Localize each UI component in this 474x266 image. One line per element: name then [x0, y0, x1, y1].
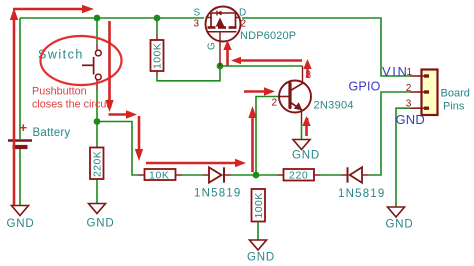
diode D1 1N5819	[209, 167, 224, 182]
svg-text:10K: 10K	[149, 170, 169, 182]
svg-text:GPIO: GPIO	[349, 80, 381, 94]
wire battery positive vertical	[19, 18, 21, 139]
wire VCC top horizontal battery to MOSFET source	[20, 17, 204, 19]
pin number 2 (drain)	[241, 19, 247, 30]
svg-text:GND: GND	[292, 150, 320, 162]
svg-text:2N3904: 2N3904	[314, 100, 354, 112]
pin number 2 (base)	[272, 98, 278, 109]
svg-text:1N5819: 1N5819	[194, 188, 241, 200]
wire base node to 220 resistor	[256, 174, 284, 176]
label Switch	[38, 48, 84, 62]
annotation arrow emitter up	[302, 116, 310, 136]
svg-text:GND: GND	[386, 219, 414, 231]
annotation line collector to gate	[231, 57, 302, 65]
svg-text:3: 3	[406, 99, 412, 110]
annotation arrow down through switch	[105, 21, 113, 112]
svg-text:GND: GND	[247, 252, 275, 264]
svg-text:+: +	[20, 120, 28, 135]
net label GND	[396, 112, 426, 127]
wire gate node to collector	[220, 65, 303, 67]
svg-text:2: 2	[241, 19, 247, 30]
annotation arrow collector up	[303, 59, 311, 78]
label NDP6020P	[240, 30, 296, 42]
annotation arrow battery ground up left side	[10, 8, 18, 205]
ground connector pin 3	[386, 207, 414, 231]
ground battery	[7, 206, 35, 231]
pin number 2	[406, 83, 412, 94]
annotation arrow down to 10K	[135, 116, 143, 161]
resistor 100K (gate pullup)	[151, 40, 164, 71]
wire MOSFET drain to VIN pin 1	[242, 18, 411, 76]
svg-text:GND: GND	[396, 112, 426, 127]
ground emitter	[292, 140, 320, 162]
svg-text:Board: Board	[441, 88, 470, 100]
annotation arrow along 10K and D1	[146, 159, 246, 167]
pin number 1	[407, 67, 413, 78]
pin number 3 (collector)	[306, 70, 312, 81]
svg-text:NDP6020P: NDP6020P	[240, 30, 296, 42]
wire connector pin 3 to ground	[396, 108, 411, 207]
junction top at switch	[94, 15, 101, 22]
wire 100K gate pullup top	[156, 18, 158, 40]
label 1N5819 (D1)	[194, 188, 241, 200]
battery BT1	[8, 120, 32, 147]
annotation text pushbutton	[32, 86, 112, 111]
switch SW1 pushbutton	[82, 50, 101, 80]
wire 100K pulldown to ground	[257, 222, 259, 241]
junction gate node	[217, 63, 224, 70]
pin number 3 (source)	[194, 19, 200, 30]
pin number 3	[406, 99, 412, 110]
net label VIN	[382, 64, 408, 79]
wire 10K to D1	[176, 174, 210, 176]
svg-text:100K: 100K	[253, 192, 265, 218]
MOSFET Q2 NDP6020P	[206, 7, 241, 67]
pin name D	[239, 8, 246, 19]
wire battery negative to ground	[19, 149, 21, 206]
wire switch top	[96, 18, 98, 50]
svg-text:2: 2	[406, 83, 412, 94]
wire switch node to 220K	[96, 122, 98, 148]
wire 220K to ground	[96, 179, 98, 204]
svg-text:Pushbutton: Pushbutton	[32, 86, 87, 98]
pin name G	[207, 42, 218, 50]
resistor 220K	[90, 148, 104, 180]
resistor 220	[284, 169, 315, 182]
svg-text:closes the circuit: closes the circuit	[32, 99, 112, 111]
wire base node up to transistor base	[256, 97, 279, 176]
wire D1 to base node	[224, 174, 256, 176]
ground 100K pulldown	[247, 240, 275, 264]
wire 220 to D2	[314, 174, 348, 176]
svg-text:S: S	[194, 8, 201, 19]
svg-text:GND: GND	[7, 218, 35, 230]
svg-text:1N5819: 1N5819	[338, 188, 385, 200]
wire D2 anode to GPIO vertical	[362, 92, 411, 175]
svg-text:2: 2	[272, 98, 278, 109]
label 2N3904	[314, 100, 354, 112]
annotation arrow top to switch	[13, 5, 94, 13]
wire 10K left pin	[138, 174, 145, 176]
label Battery	[33, 127, 71, 139]
svg-text:100K: 100K	[152, 43, 164, 69]
transistor Q1 2N3904	[279, 81, 311, 113]
wire collector pin	[302, 66, 304, 83]
resistor 10K	[145, 169, 176, 182]
net label GPIO	[349, 80, 381, 94]
svg-text:220K: 220K	[92, 151, 104, 177]
wire emitter to ground	[301, 111, 303, 140]
label 1N5819 (D2)	[338, 188, 385, 200]
wire 100K bottom to gate node	[157, 66, 220, 81]
diode D2 1N5819	[348, 167, 363, 182]
svg-text:VIN: VIN	[382, 64, 408, 79]
junction switch bottom node	[94, 118, 101, 125]
annotation ellipse around switch	[41, 36, 122, 85]
junction base node	[253, 172, 260, 179]
annotation arrow up to base	[248, 106, 256, 172]
junction top at 100K	[154, 15, 161, 22]
svg-text:GND: GND	[87, 218, 115, 230]
annotation arrow into base	[244, 87, 275, 95]
label Board Pins	[441, 88, 470, 113]
ground 220K	[87, 204, 115, 230]
resistor 100K (base pulldown)	[252, 189, 266, 222]
svg-text:Pins: Pins	[443, 101, 465, 113]
connector J1 board pins	[411, 70, 438, 116]
annotation arrow right below switch	[109, 110, 138, 118]
pin number 1 (emitter)	[305, 117, 311, 128]
wire switch bottom	[96, 80, 98, 122]
wire switch node right then down to 10K	[97, 122, 138, 176]
svg-text:D: D	[239, 8, 246, 19]
svg-text:Battery: Battery	[33, 127, 71, 139]
svg-text:3: 3	[194, 19, 200, 30]
pin name S	[194, 8, 201, 19]
annotation arrow up into gate	[223, 40, 231, 66]
svg-text:G: G	[207, 42, 218, 50]
svg-text:220: 220	[289, 170, 308, 182]
